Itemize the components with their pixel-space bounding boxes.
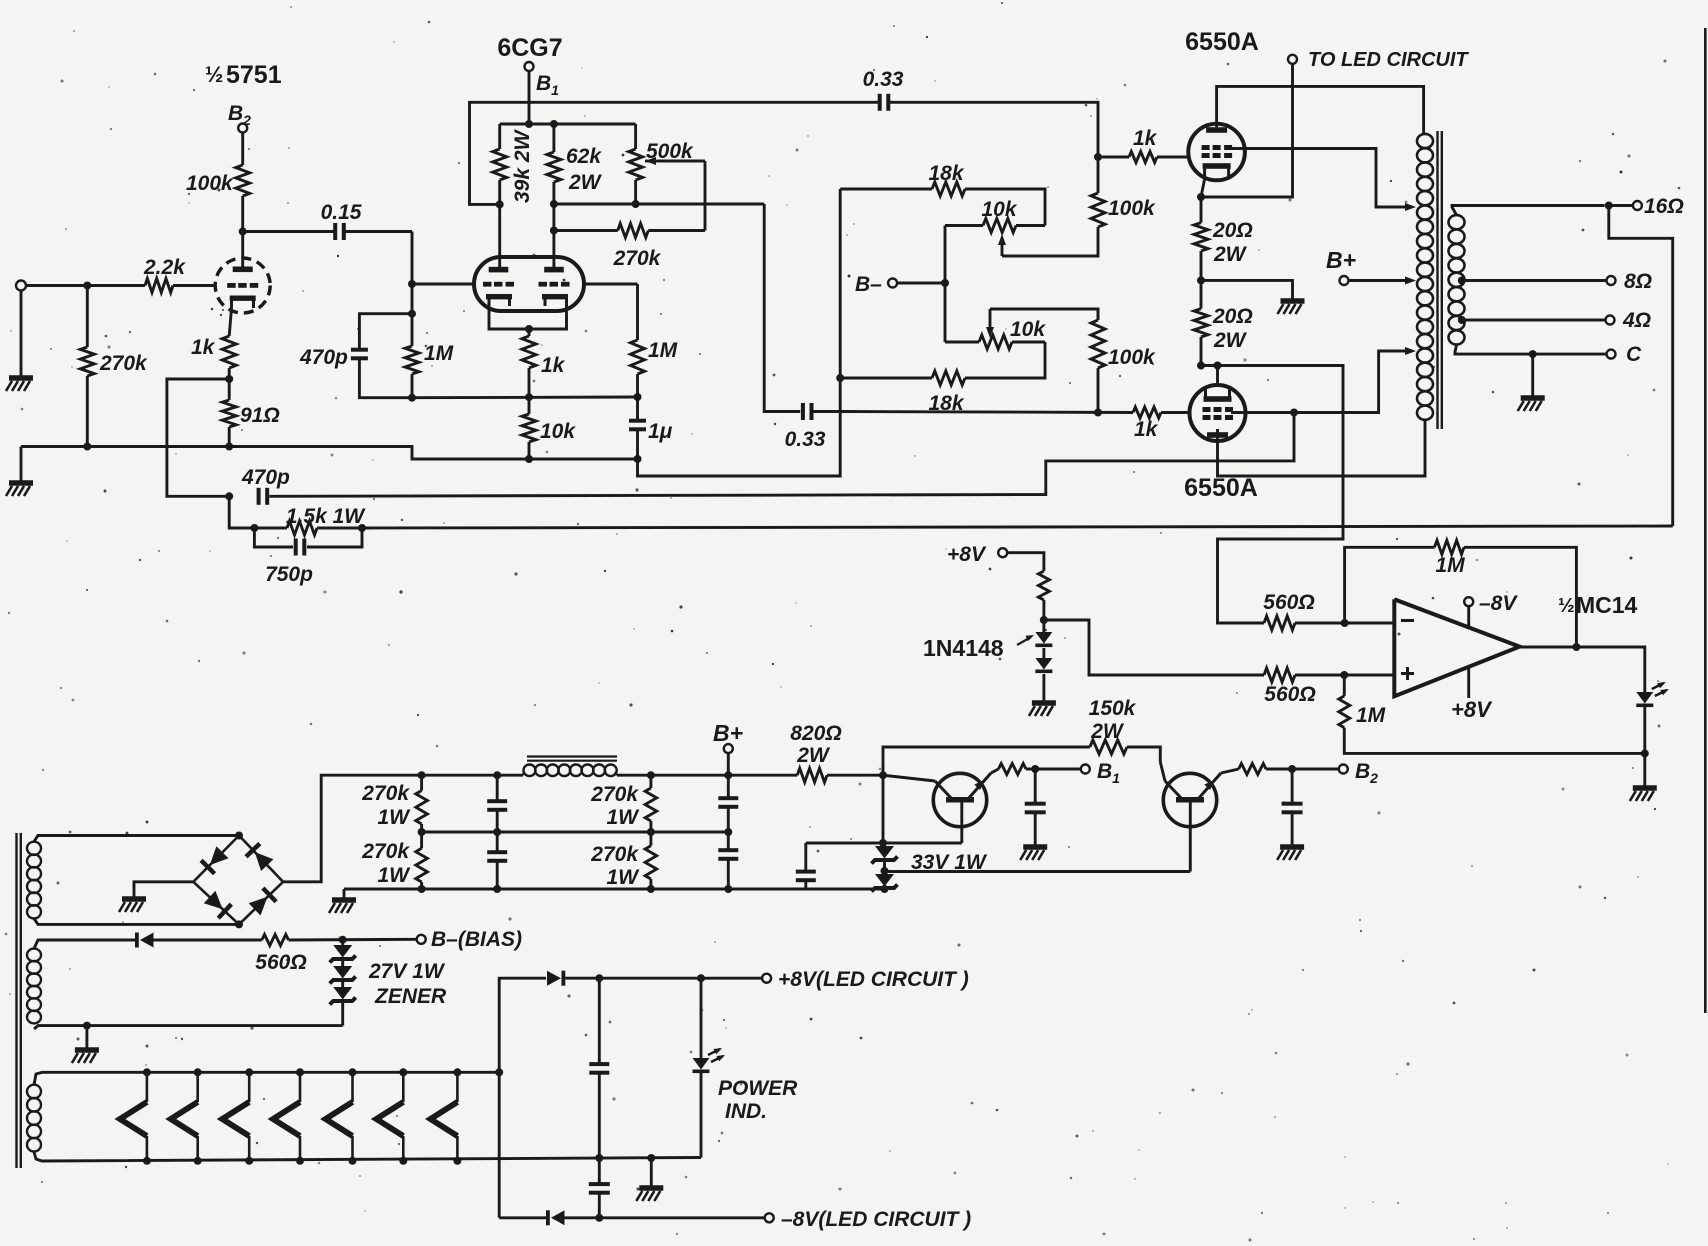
wire 270k bottom [86, 376, 89, 447]
svg-text:560Ω: 560Ω [1263, 591, 1314, 614]
resistor 91ohm [222, 400, 280, 427]
svg-text:ZENER: ZENER [374, 985, 447, 1008]
junction 1uF bottom [634, 455, 642, 463]
wire Q1 base stem [960, 803, 963, 844]
terminal -8V LED [765, 1208, 971, 1231]
junction input node [83, 282, 91, 290]
svg-text:270k: 270k [590, 843, 639, 866]
junction 100k V4 bottom [1094, 409, 1102, 417]
terminal B1 top [525, 62, 560, 98]
wire plate node to 0.15 [243, 230, 334, 233]
svg-text:B–: B– [855, 273, 882, 296]
svg-text:2W: 2W [1090, 720, 1125, 743]
junction C ground [1529, 350, 1537, 358]
heater filament 5 [326, 1068, 357, 1165]
ground B1 cap [1023, 844, 1047, 850]
ground input [9, 375, 33, 381]
svg-text:2W: 2W [568, 171, 603, 194]
terminal B- BIAS [417, 928, 522, 951]
wire 10k lower wiper [986, 309, 994, 338]
svg-text:+8V: +8V [947, 543, 987, 566]
wire secondary top 16ohm [1452, 206, 1605, 216]
svg-text:20Ω: 20Ω [1212, 219, 1253, 242]
terminal B2 top [228, 102, 251, 133]
svg-text:10k: 10k [540, 420, 576, 443]
wire bridge minus to ground [134, 882, 193, 897]
heater filament 3 [222, 1068, 253, 1165]
resistor diode bias [1038, 571, 1049, 632]
wire 62k to plate [552, 182, 555, 268]
diode +8V [547, 971, 565, 986]
heater filament 4 [273, 1068, 304, 1165]
wire 0.33 lower to grid row [813, 410, 840, 413]
resistor 270k 1W d [590, 832, 656, 889]
zener 33V a [872, 843, 988, 874]
junction node A grid wire [408, 280, 416, 288]
resistor 150k 2W [883, 697, 1160, 775]
junction B- node [941, 279, 949, 287]
wire cathodes V2 U [489, 306, 567, 329]
wire input ground stem [20, 291, 23, 377]
resistor 18k upper [840, 162, 1045, 226]
svg-text:C: C [1626, 343, 1642, 366]
svg-text:2W: 2W [1213, 329, 1248, 352]
terminal B2 out [1339, 760, 1378, 786]
svg-text:0.15: 0.15 [321, 201, 362, 224]
label 1N4148 [923, 635, 1034, 661]
junction cap6 top [595, 974, 603, 982]
wire 1k V2 to rail [528, 368, 531, 397]
diode 1N4148 a [1035, 632, 1052, 647]
tube V1 1/2-5751 triode [215, 258, 270, 313]
wire -8V row [565, 1216, 766, 1219]
junction 470p left [225, 492, 233, 500]
wire wiper to 100k lower [990, 309, 1098, 320]
resistor 100k grid V3 [1091, 157, 1156, 227]
wire bias ground stem [85, 1026, 88, 1048]
junction 39k bottom node [496, 200, 504, 208]
terminal input jack [16, 281, 26, 291]
wire screen V3 tap [1230, 149, 1416, 212]
svg-text:4Ω: 4Ω [1622, 309, 1651, 332]
wire LED to return row [1643, 707, 1646, 786]
terminal -8V opamp [1464, 592, 1518, 615]
resistor 270k input [80, 347, 148, 376]
wire ground row supply [344, 888, 885, 891]
wire cathode center down [528, 329, 531, 336]
junction LED return [1641, 749, 1649, 757]
svg-text:39k 2W: 39k 2W [511, 128, 534, 203]
heater filament 1 [120, 1068, 151, 1165]
junction cathode V4 row [1214, 362, 1222, 370]
junction cap a top [493, 771, 501, 779]
resistor 20ohm 2W upper [1194, 197, 1253, 280]
svg-text:½: ½ [205, 62, 223, 87]
LED output indicator [1636, 682, 1669, 707]
wire grid row V4 [840, 412, 1133, 413]
wire supply rail y124 [500, 123, 636, 126]
wire rail2 y204 [554, 203, 764, 206]
wire grid left V2 [412, 283, 474, 286]
wire grid right V2 [584, 283, 638, 286]
junction heater rail right [495, 1068, 503, 1076]
transformer T1 secondary winding [1449, 215, 1465, 344]
svg-text:TO LED CIRCUIT: TO LED CIRCUIT [1308, 49, 1469, 71]
diode -8V [546, 1210, 565, 1225]
capacitor 0.15 [321, 201, 362, 240]
svg-text:2W: 2W [1213, 243, 1248, 266]
svg-text:1k: 1k [541, 354, 566, 377]
wire 1M left bottom [411, 374, 414, 398]
junction zener bias top [339, 936, 347, 944]
wire 20ohm mid to ground [1201, 280, 1293, 299]
svg-text:1M: 1M [424, 342, 454, 365]
wire cathode V4 [1216, 366, 1219, 388]
potentiometer 10k lower [945, 318, 1046, 349]
wire HV bottom to bridge [34, 919, 239, 925]
svg-text:1M: 1M [1435, 554, 1465, 577]
wire plate V4 [1218, 420, 1426, 476]
svg-text:10k: 10k [1010, 318, 1046, 341]
svg-text:560Ω: 560Ω [255, 951, 306, 974]
svg-text:2.2k: 2.2k [143, 256, 186, 279]
choke filter [523, 757, 617, 777]
junction 1.5k left [250, 524, 258, 532]
junction 270k a bottom [418, 828, 426, 836]
terminal +8V LED [762, 968, 969, 991]
resistor 560ohm upper [1263, 591, 1314, 630]
junction V3 grid node [1094, 153, 1102, 161]
zener 27V b [330, 966, 356, 987]
resistor 1k cathode V2 [522, 336, 566, 377]
wire 1M right bottom [636, 374, 639, 397]
svg-text:B+: B+ [1326, 247, 1356, 273]
junction 270k bottom [83, 443, 91, 451]
svg-text:150k: 150k [1089, 697, 1137, 720]
resistor 820ohm 2W [790, 722, 883, 782]
label B+ supply [713, 720, 743, 753]
svg-text:91Ω: 91Ω [240, 404, 280, 427]
terminal C [1607, 343, 1643, 366]
junction diode tap [1040, 616, 1048, 624]
transistor Q2 [1163, 773, 1221, 827]
capacitor 0.33 upper [863, 68, 904, 111]
ground bridge [122, 896, 146, 902]
resistor 560ohm bias [255, 935, 306, 975]
junction plate V1 [239, 228, 247, 236]
svg-text:1W: 1W [378, 806, 412, 829]
node A vertical [411, 232, 414, 347]
wire C ground stem [1531, 354, 1534, 396]
svg-text:20Ω: 20Ω [1212, 305, 1253, 328]
junction 270k b bottom [418, 885, 426, 893]
svg-text:0.33: 0.33 [785, 428, 826, 451]
wire Q1 emitter [991, 769, 999, 773]
wire diode to ground [1042, 674, 1045, 701]
svg-text:B–(BIAS): B–(BIAS) [431, 928, 522, 951]
wire 470p down to 1.5k row [229, 496, 254, 528]
wire opamp output [1520, 647, 1645, 692]
junction 91ohm bottom [225, 443, 233, 451]
transformer T2 bias winding [27, 949, 41, 1024]
junction bias ground [83, 1022, 91, 1030]
junction output fb [1572, 643, 1580, 651]
junction B2 node [1288, 765, 1296, 773]
wire zener mid to Q2 base [885, 870, 1191, 873]
junction B1 node [1031, 765, 1039, 773]
junction bridge top [235, 832, 243, 840]
wire 2.2k to grid V1 [173, 284, 216, 287]
transformer T2 core [17, 833, 21, 1168]
wire cathode V1 down [229, 308, 231, 336]
wire 0.15 to node A [346, 230, 413, 233]
wire long feedback row [362, 526, 1673, 528]
transformer T2 HV winding [27, 842, 41, 919]
resistor 18k lower [840, 342, 1045, 415]
capacitor 0.33 lower [801, 403, 814, 420]
heater filament 2 [171, 1068, 202, 1165]
wire +8V row [565, 977, 762, 980]
junction 18k bottom left [836, 374, 844, 382]
wire B- to pots [897, 282, 945, 285]
wire Q2 base stem [1189, 803, 1192, 872]
label V1 1/2 5751 [205, 61, 282, 89]
svg-text:18k: 18k [928, 162, 964, 185]
resistor 62k 2W [547, 124, 603, 194]
junction zener top [879, 839, 887, 847]
svg-text:270k: 270k [590, 783, 639, 806]
capacitor 750p [254, 528, 362, 586]
wire -8V row left [499, 1216, 546, 1219]
wire plate V3 [1217, 86, 1424, 134]
wire 1k to 91ohm [228, 368, 231, 400]
svg-text:½: ½ [1558, 595, 1575, 617]
diode 1N4148 b [1035, 658, 1052, 673]
resistor 270k 1W a [361, 775, 427, 832]
capacitor 470p fb [241, 466, 290, 505]
wire power LED stem [700, 978, 703, 1058]
op-amp U1 1/2 MC14 [1394, 599, 1519, 696]
ground C tap [1521, 395, 1545, 401]
wire rail2 down to 0.33 lower [764, 204, 800, 412]
junction B+ node [724, 771, 732, 779]
wire power LED to mid row [700, 1073, 703, 1158]
svg-text:270k: 270k [99, 352, 148, 375]
ground diodes [1032, 700, 1056, 706]
junction cathode V3 [1197, 193, 1205, 201]
potentiometer 10k upper [945, 198, 1045, 233]
svg-text:1k: 1k [191, 336, 216, 359]
wire 0.33 to V3 grid node [890, 102, 1098, 157]
label 27V zener [368, 960, 447, 1008]
wire B1 down [528, 71, 531, 124]
junction 500k bottom [632, 200, 640, 208]
svg-text:2W: 2W [796, 744, 831, 767]
svg-text:100k: 100k [1108, 197, 1156, 220]
wire diode tap to +input [1044, 620, 1264, 675]
svg-text:6550A: 6550A [1185, 28, 1259, 56]
svg-text:1M: 1M [1356, 704, 1386, 727]
capacitor 470p grid V2 [299, 314, 412, 398]
wire top rail y102 [470, 102, 879, 204]
ground B2 cap [1280, 844, 1304, 850]
tube V3 6550A upper [1188, 124, 1245, 181]
junction 62k top [550, 120, 558, 128]
wire +8V to resistor [1007, 553, 1044, 571]
resistor 100k plate V1 [186, 165, 250, 196]
wire B- vertical [944, 226, 947, 343]
wire -8V stem [1467, 606, 1470, 628]
tube V4 6550A lower [1190, 385, 1246, 441]
wire return row to 1M [1344, 728, 1645, 754]
wire secondary bottom C [1455, 345, 1607, 354]
wire bias winding top [34, 940, 136, 949]
terminal B1 out [1081, 760, 1120, 786]
LED power indicator [693, 1048, 799, 1123]
svg-text:470p: 470p [241, 466, 290, 489]
svg-text:–8V: –8V [1479, 592, 1518, 615]
wire cathode sense row [1201, 366, 1343, 624]
junction 820 out [879, 771, 887, 779]
resistor 1M feedback [1345, 540, 1577, 647]
wire 560 to B- terminal [289, 938, 418, 942]
wire 270k top [86, 286, 89, 348]
terminal B- bias [855, 273, 897, 296]
zener 27V a [330, 940, 356, 966]
wire heater top rail [34, 1072, 499, 1085]
junction node A 470p wire [408, 310, 416, 318]
ground bias winding [75, 1047, 99, 1053]
ground LED supply [639, 1185, 663, 1191]
terminal TO LED CIRCUIT [1288, 49, 1469, 71]
svg-text:5751: 5751 [226, 61, 282, 89]
wire feedback from 16ohm [1609, 206, 1673, 527]
junction cap b bottom [493, 885, 501, 893]
resistor Q2 emitter [1239, 764, 1266, 775]
wire 500k wiper [645, 157, 705, 231]
bridge rectifier [193, 836, 283, 925]
resistor 100k grid V4 [1091, 309, 1156, 413]
junction mid ground [647, 1154, 655, 1162]
ground supply row [332, 897, 356, 903]
svg-text:1k: 1k [1134, 418, 1159, 441]
wire ground row y446 [21, 447, 638, 460]
junction 62k 270k node [550, 227, 558, 235]
capacitor zener bypass [796, 843, 816, 889]
wire mid ground stem [650, 1158, 653, 1186]
svg-text:6CG7: 6CG7 [497, 34, 562, 62]
wire left ground stem 2 [20, 447, 23, 482]
wire 560 to -input [1295, 622, 1394, 625]
wire 1k to grid V4 [1161, 411, 1190, 414]
resistor 10k tail V2 [522, 397, 576, 459]
wire to B2 terminal [1266, 768, 1339, 771]
svg-text:62k: 62k [566, 145, 602, 168]
junction LED power top [697, 974, 705, 982]
resistor 1k cathode V1 [191, 336, 236, 368]
junction cathode center V2 [525, 325, 533, 333]
ground LED [1633, 785, 1657, 791]
junction 270k c top [647, 771, 655, 779]
junction 1M left bottom [408, 394, 416, 402]
svg-text:6550A: 6550A [1184, 474, 1258, 502]
wire B2 to 100k [241, 132, 244, 165]
wire zener top row [806, 775, 962, 843]
svg-text:MC14: MC14 [1576, 592, 1638, 618]
junction 20ohm mid [1197, 276, 1205, 284]
resistor 1M plus input [1339, 675, 1386, 728]
svg-text:1W: 1W [607, 806, 641, 829]
svg-text:270k: 270k [613, 247, 662, 270]
svg-text:IND.: IND. [725, 1100, 767, 1123]
capacitor B1 bypass [1025, 769, 1046, 845]
svg-text:1.5k 1W: 1.5k 1W [286, 505, 366, 528]
svg-text:–8V(LED CIRCUIT ): –8V(LED CIRCUIT ) [781, 1208, 971, 1231]
svg-text:270k: 270k [361, 782, 410, 805]
junction zener mid [881, 867, 889, 875]
junction cap a bottom [493, 828, 501, 836]
transistor Q1 [933, 773, 991, 827]
svg-text:100k: 100k [186, 172, 234, 195]
wire HV top to bridge [34, 836, 239, 842]
wire screen V4 tap [1231, 347, 1416, 413]
wire 560 to +input [1295, 674, 1394, 677]
wire rail y397 [412, 396, 638, 400]
svg-text:820Ω: 820Ω [790, 722, 841, 745]
label 1/2MC14 [1558, 592, 1638, 618]
wire choke to B+ node [617, 774, 797, 777]
wire mid row 1 [422, 831, 729, 834]
wire 100k to plate node [241, 196, 244, 267]
svg-text:10k: 10k [981, 198, 1017, 221]
wire 1k to grid V3 [1157, 156, 1190, 159]
terminal 16 ohm [1609, 195, 1684, 218]
wire jog to 470p node [167, 379, 229, 496]
svg-text:1W: 1W [607, 866, 641, 889]
svg-text:100k: 100k [1108, 346, 1156, 369]
capacitor 1uF [629, 397, 673, 459]
junction 270k c bottom [647, 828, 655, 836]
capacitor LED supply a [589, 978, 609, 1158]
capacitor filter c [718, 775, 738, 832]
zener 33V b [872, 871, 898, 892]
wire Q1 collector [883, 775, 935, 781]
terminal 4 ohm [1458, 309, 1651, 332]
resistor 1M left [405, 342, 454, 374]
resistor 1k grid V4 [1133, 407, 1161, 441]
junction 1M plus node [1340, 671, 1348, 679]
wire 470p right row [269, 416, 1294, 496]
svg-text:1μ: 1μ [648, 420, 673, 443]
ground 20ohm mid [1281, 298, 1305, 304]
junction 10k bottom [525, 455, 533, 463]
svg-text:470p: 470p [299, 346, 348, 369]
junction bridge bottom [235, 920, 243, 928]
junction 1M right bottom [634, 393, 642, 401]
resistor 1.5k 1W feedback [254, 505, 366, 535]
wire 1uF jog to 0.33 node [638, 189, 841, 476]
wire Q2 emitter [1221, 769, 1239, 773]
junction 1M minus node [1341, 619, 1349, 627]
wire cathode V3 [1201, 179, 1205, 197]
junction zener bottom [881, 885, 889, 893]
resistor 270k 1W b [361, 832, 427, 889]
svg-text:+8V(LED CIRCUIT ): +8V(LED CIRCUIT ) [778, 968, 969, 991]
wire B+ stem [727, 753, 730, 775]
svg-text:0.33: 0.33 [863, 68, 904, 91]
wire 39k to plate [498, 180, 501, 268]
junction 10k top [525, 393, 533, 401]
